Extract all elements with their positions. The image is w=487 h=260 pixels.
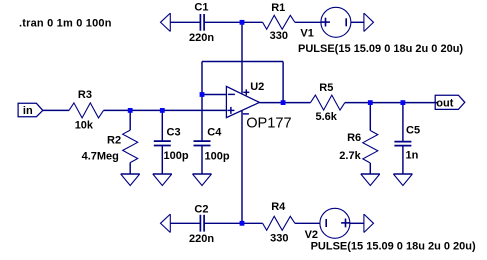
capacitor C2 (200, 215, 204, 232)
wire node to inverting input (202, 94, 226, 96)
svg-text:330: 330 (270, 232, 288, 244)
capacitor C5 (394, 103, 411, 174)
feedback wire left vertical down to C4 (201, 62, 203, 142)
svg-text:R4: R4 (271, 201, 286, 213)
output wire (259, 102, 310, 104)
svg-text:C3: C3 (167, 127, 181, 139)
ground under C4 (193, 174, 212, 186)
capacitor C1 (200, 14, 204, 31)
wire V- supply (241, 111, 243, 223)
svg-text:330: 330 (270, 30, 288, 42)
capacitor C3 (154, 110, 171, 174)
wire (350, 222, 364, 224)
ground under C5 (393, 174, 412, 186)
svg-text:R1: R1 (271, 2, 285, 14)
voltage source V2 (320, 208, 350, 238)
svg-text:1n: 1n (406, 150, 419, 162)
svg-text:10k: 10k (75, 120, 94, 132)
svg-text:OP177: OP177 (246, 115, 291, 131)
svg-text:C5: C5 (406, 125, 420, 137)
wire to out port (345, 102, 437, 104)
svg-text:out: out (436, 97, 453, 109)
svg-text:R2: R2 (107, 134, 121, 146)
node bottom supply (240, 221, 245, 226)
svg-text:R5: R5 (319, 82, 333, 94)
op-amp input minus marker (228, 93, 235, 95)
capacitor C4 (194, 141, 211, 174)
svg-text:R6: R6 (347, 132, 361, 144)
junction nodes (128, 20, 406, 226)
svg-text:C1: C1 (194, 2, 208, 14)
ground top-right (points right) (364, 13, 374, 31)
wire (351, 21, 364, 23)
wire (295, 21, 321, 23)
node inverting input (200, 92, 205, 97)
ground under C3 (153, 174, 172, 186)
resistor R1 (263, 15, 295, 29)
svg-text:4.7Meg: 4.7Meg (82, 150, 119, 162)
wire (204, 21, 263, 23)
op-amp V- marker (243, 113, 249, 115)
svg-text:100p: 100p (205, 151, 230, 163)
svg-text:100p: 100p (164, 150, 189, 162)
svg-text:in: in (23, 105, 33, 117)
node C3 (160, 108, 165, 113)
svg-text:.tran 0 1m 0 100n: .tran 0 1m 0 100n (19, 18, 112, 30)
node top supply (240, 20, 245, 25)
svg-text:5.6k: 5.6k (316, 111, 338, 123)
svg-text:C4: C4 (207, 127, 222, 139)
port in (18, 103, 43, 116)
port out (435, 95, 465, 109)
svg-text:PULSE(15 15.09 0 18u 2u 0 20u): PULSE(15 15.09 0 18u 2u 0 20u) (298, 43, 463, 55)
feedback wire top (202, 61, 283, 63)
ground bottom-left (points left) (161, 214, 171, 232)
resistor R4 (263, 216, 295, 230)
ground under R2 (121, 174, 140, 186)
svg-text:2.7k: 2.7k (339, 150, 361, 162)
ground under R6 (361, 174, 380, 186)
ground top-left (points left) (161, 13, 171, 31)
feedback wire right vertical (282, 62, 284, 103)
op-amp V+ marker (243, 89, 249, 95)
wire (170, 21, 200, 23)
op-amp input plus marker (227, 107, 234, 114)
node R2 (128, 108, 133, 113)
wire (295, 222, 320, 224)
op-amp U2 triangle (226, 86, 259, 117)
svg-text:C2: C2 (194, 204, 208, 216)
svg-text:R3: R3 (78, 89, 92, 101)
svg-text:PULSE(15 15.09 0 18u 2u 0 20u): PULSE(15 15.09 0 18u 2u 0 20u) (311, 241, 476, 253)
wire to op-amp + input (104, 109, 227, 111)
svg-text:V1: V1 (300, 27, 313, 39)
node output (281, 100, 286, 105)
wire (170, 222, 200, 224)
wire V+ supply (241, 22, 243, 93)
node R6 (368, 100, 373, 105)
svg-text:220n: 220n (189, 32, 214, 44)
resistor R5 (311, 95, 345, 110)
svg-text:U2: U2 (250, 81, 264, 93)
voltage source V1 (321, 7, 351, 37)
node C5 (401, 100, 406, 105)
wire (43, 109, 69, 111)
svg-text:V2: V2 (305, 229, 318, 241)
svg-text:220n: 220n (189, 233, 214, 245)
resistor R2 (123, 110, 138, 174)
ground bottom-right (points right) (364, 214, 374, 232)
wire (204, 222, 263, 224)
resistor R3 (69, 103, 104, 118)
resistor R6 (363, 103, 378, 174)
